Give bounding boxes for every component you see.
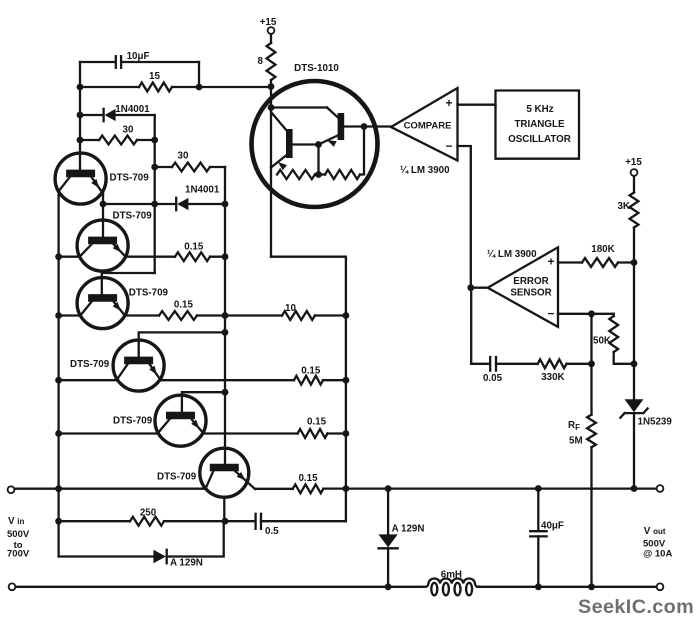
svg-text:V out: V out bbox=[644, 526, 666, 537]
svg-text:DTS-709: DTS-709 bbox=[110, 173, 150, 184]
svg-text:DTS-709: DTS-709 bbox=[129, 288, 169, 299]
svg-text:250: 250 bbox=[140, 508, 157, 519]
svg-text:0.05: 0.05 bbox=[483, 373, 503, 384]
svg-text:330K: 330K bbox=[541, 372, 564, 383]
svg-text:+15: +15 bbox=[625, 157, 642, 168]
svg-text:8: 8 bbox=[258, 56, 264, 67]
svg-text:+15: +15 bbox=[260, 17, 277, 28]
svg-text:700V: 700V bbox=[7, 549, 30, 560]
svg-text:SENSOR: SENSOR bbox=[510, 288, 551, 299]
svg-text:DTS-709: DTS-709 bbox=[113, 416, 153, 427]
svg-text:30: 30 bbox=[178, 151, 189, 162]
svg-text:5M: 5M bbox=[569, 436, 583, 447]
svg-text:3K: 3K bbox=[617, 201, 630, 212]
svg-text:DTS-1010: DTS-1010 bbox=[294, 63, 339, 74]
svg-text:A 129N: A 129N bbox=[170, 558, 203, 569]
svg-text:50K: 50K bbox=[593, 336, 611, 347]
svg-text:1N5239: 1N5239 bbox=[638, 417, 673, 428]
svg-text:+: + bbox=[547, 255, 554, 269]
svg-text:15: 15 bbox=[149, 71, 160, 82]
svg-text:A 129N: A 129N bbox=[392, 524, 425, 535]
svg-text:@ 10A: @ 10A bbox=[643, 549, 672, 560]
svg-text:ERROR: ERROR bbox=[513, 276, 548, 287]
svg-text:500V: 500V bbox=[7, 529, 30, 540]
svg-text:0.5: 0.5 bbox=[265, 526, 279, 537]
svg-text:10μF: 10μF bbox=[127, 51, 150, 62]
svg-text:6mH: 6mH bbox=[441, 569, 462, 580]
svg-text:40μF: 40μF bbox=[541, 521, 564, 532]
svg-text:−: − bbox=[547, 307, 554, 321]
svg-text:DTS-709: DTS-709 bbox=[113, 211, 153, 222]
svg-text:SeekIC.com: SeekIC.com bbox=[578, 596, 694, 618]
svg-text:TRIANGLE: TRIANGLE bbox=[514, 119, 565, 130]
svg-text:0.15: 0.15 bbox=[301, 366, 321, 377]
svg-text:¼ LM 3900: ¼ LM 3900 bbox=[487, 249, 537, 260]
svg-text:OSCILLATOR: OSCILLATOR bbox=[508, 134, 571, 145]
svg-text:180K: 180K bbox=[591, 244, 614, 255]
svg-text:1N4001: 1N4001 bbox=[115, 104, 150, 115]
svg-text:0.15: 0.15 bbox=[307, 417, 327, 428]
svg-text:COMPARE: COMPARE bbox=[404, 121, 452, 132]
svg-text:V in: V in bbox=[8, 516, 24, 527]
svg-text:−: − bbox=[445, 139, 452, 153]
svg-text:0.15: 0.15 bbox=[298, 473, 318, 484]
svg-text:0.15: 0.15 bbox=[174, 300, 194, 311]
svg-text:5 KHz: 5 KHz bbox=[526, 104, 553, 115]
svg-text:10: 10 bbox=[285, 303, 296, 314]
svg-text:DTS-709: DTS-709 bbox=[70, 359, 110, 370]
svg-text:¼ LM 3900: ¼ LM 3900 bbox=[400, 165, 450, 176]
svg-text:+: + bbox=[445, 96, 452, 110]
svg-text:1N4001: 1N4001 bbox=[185, 185, 220, 196]
svg-text:30: 30 bbox=[123, 125, 134, 136]
svg-text:DTS-709: DTS-709 bbox=[157, 472, 197, 483]
svg-text:0.15: 0.15 bbox=[184, 242, 204, 253]
